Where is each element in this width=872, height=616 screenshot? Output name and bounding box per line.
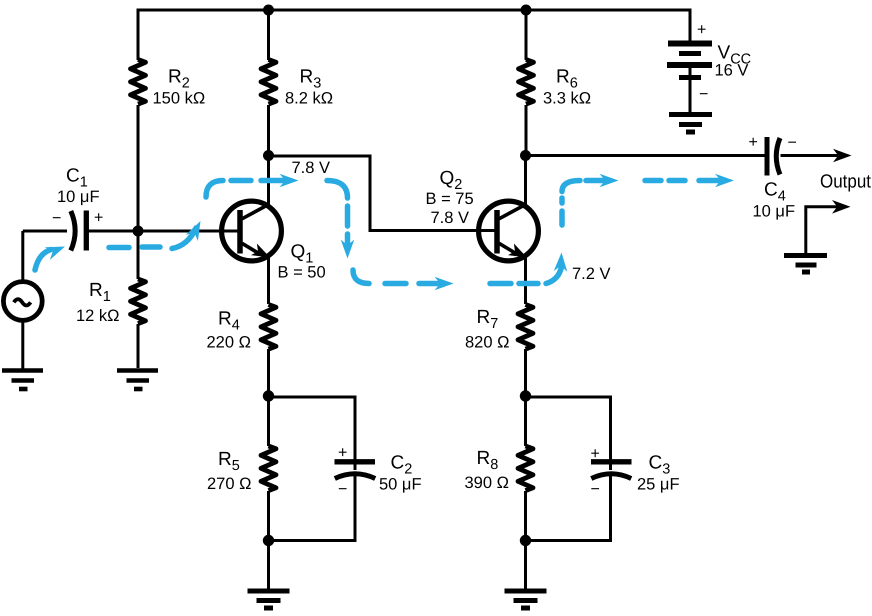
wire node to ground [267, 540, 270, 591]
svg-text:10 μF: 10 μF [57, 188, 100, 206]
wire battery top [689, 10, 691, 44]
svg-text:R5: R5 [218, 449, 240, 474]
wire top supply rail [137, 9, 691, 12]
resistor R6 [519, 60, 534, 105]
wire blue dashes after C1 [109, 245, 129, 251]
wire R2 top [137, 9, 140, 61]
wire R1 bottom [137, 324, 140, 368]
wire Q1 emitter down [267, 256, 270, 304]
svg-text:R2: R2 [168, 67, 190, 92]
wire Q2 collector [524, 155, 527, 206]
svg-text:+: + [749, 134, 758, 151]
node Q2 collector [520, 150, 531, 161]
ground R8 [505, 591, 547, 608]
wire blue dash above Q1 [231, 178, 251, 184]
wire source bottom [21, 320, 24, 369]
svg-text:R3: R3 [300, 67, 322, 92]
wire base node to Q1 base [138, 230, 238, 233]
resistor R8 [518, 446, 533, 491]
svg-text:C2: C2 [391, 453, 413, 478]
wire node to R5 [267, 395, 270, 446]
svg-text:C4: C4 [764, 180, 786, 205]
ground R1 [117, 371, 158, 390]
resistor R3 [261, 60, 276, 105]
capacitor C3 [591, 462, 632, 479]
wire collector node to C4 [526, 154, 765, 157]
wire C1 to base node [89, 230, 139, 233]
svg-text:R6: R6 [556, 67, 578, 92]
svg-text:−: − [52, 210, 61, 227]
wire R2 bottom to base node [137, 105, 140, 232]
node Q1 collector [263, 150, 274, 161]
svg-text:8.2 kΩ: 8.2 kΩ [285, 90, 333, 108]
resistor R7 [518, 305, 533, 350]
svg-text:−: − [591, 481, 600, 498]
svg-text:R7: R7 [477, 307, 499, 332]
wire R6 top [525, 9, 528, 61]
resistor R4 [261, 305, 276, 350]
svg-text:25 μF: 25 μF [637, 476, 680, 494]
wire Q1 collector [267, 155, 270, 206]
wire C2 top branch [269, 397, 356, 470]
wire blue curve up to 7.2V [546, 267, 562, 284]
arrow blue down right of Q1 [341, 240, 355, 259]
capacitor C4 [767, 137, 780, 176]
arrow blue toward Q2 [435, 277, 454, 291]
battery VCC [667, 44, 712, 78]
wire C2 bottom branch [269, 474, 356, 541]
wire blue corner to bottom run [353, 270, 369, 284]
transistor Q2 [479, 201, 539, 261]
wire C3 bottom branch [526, 474, 611, 541]
wire node to ground [524, 540, 527, 591]
wire blue output dashes [586, 178, 604, 184]
node R4-R5 [263, 390, 274, 401]
arrow blue at source [45, 247, 65, 260]
arrow blue above Q1 [280, 174, 299, 188]
svg-text:+: + [697, 22, 706, 39]
svg-text:R4: R4 [218, 309, 240, 334]
wire node to Q2 base [269, 156, 495, 231]
svg-text:10 μF: 10 μF [753, 203, 796, 221]
wire output tap [806, 207, 838, 254]
svg-text:7.8 V: 7.8 V [431, 209, 470, 227]
wire blue corner up-left of Q1 [206, 181, 223, 198]
wire R3 top [267, 9, 270, 61]
transistor Q1 [222, 201, 282, 261]
output arrow tap [832, 200, 851, 214]
wire blue corner to output run [562, 181, 580, 192]
wire blue arc up to base [172, 228, 196, 249]
svg-text:−: − [338, 481, 347, 498]
svg-text:B = 75: B = 75 [426, 190, 474, 208]
wire R5 bottom to node [267, 491, 270, 541]
wire R7 bottom to node [524, 349, 527, 397]
wire source to C1 [23, 230, 67, 233]
svg-text:3.3 kΩ: 3.3 kΩ [543, 90, 591, 108]
AC source V1 [3, 282, 42, 321]
svg-text:C3: C3 [649, 453, 671, 478]
svg-text:C1: C1 [66, 166, 88, 191]
arrow blue to C4 [715, 174, 734, 188]
ground battery [669, 115, 712, 133]
svg-text:820 Ω: 820 Ω [465, 334, 509, 352]
output arrow main [833, 149, 852, 163]
wire Q2 emitter down [524, 256, 527, 304]
wire blue vertical dash [345, 206, 351, 226]
svg-text:220 Ω: 220 Ω [207, 334, 251, 352]
ground output [784, 256, 827, 273]
wire blue start arc at source [35, 250, 51, 271]
svg-text:270 Ω: 270 Ω [207, 475, 251, 493]
node Q1 base [133, 226, 144, 237]
svg-text:−: − [788, 135, 797, 152]
svg-text:16 V: 16 V [715, 62, 749, 80]
ground R5 [248, 591, 290, 608]
svg-text:−: − [699, 86, 708, 103]
svg-text:150 kΩ: 150 kΩ [153, 90, 206, 108]
wire source top [21, 231, 24, 282]
signal path blue [35, 181, 718, 284]
node R7-R8 [520, 390, 531, 401]
svg-text:+: + [338, 445, 347, 462]
svg-text:7.2 V: 7.2 V [572, 265, 611, 283]
wire battery bottom [689, 65, 692, 115]
node R5-ground [263, 535, 274, 546]
wire C3 top branch [526, 397, 611, 470]
svg-text:50 μF: 50 μF [379, 476, 422, 494]
svg-text:+: + [94, 210, 103, 227]
node R8-ground [520, 535, 531, 546]
arrow blue to Q1 base [186, 221, 201, 241]
wire R4 bottom to node [267, 349, 270, 397]
arrow blue up at 7.2V [554, 253, 568, 272]
svg-text:390 Ω: 390 Ω [465, 474, 509, 492]
capacitor C2 [335, 462, 376, 479]
wire C4 to output arrow [781, 154, 839, 157]
wire blue bottom dashes [385, 281, 406, 287]
ground source [2, 371, 43, 390]
svg-text:12 kΩ: 12 kΩ [76, 307, 120, 325]
capacitor C1 [71, 211, 87, 251]
wire R8 bottom to node [524, 491, 527, 541]
wire R3 bottom to collector node [267, 105, 270, 156]
wire blue vertical dashes right of Q2 [559, 211, 565, 225]
resistor R5 [261, 446, 276, 491]
node top rail right [521, 5, 532, 16]
wire node to R8 [524, 395, 527, 446]
resistor R1 [131, 279, 146, 324]
wire R6 bottom to collector node [525, 105, 528, 156]
svg-text:Output: Output [820, 172, 872, 193]
svg-text:7.8 V: 7.8 V [292, 159, 331, 177]
resistor R2 [131, 60, 146, 105]
svg-text:+: + [591, 446, 600, 463]
node top rail left [263, 5, 274, 16]
svg-text:R1: R1 [89, 280, 111, 305]
svg-text:R8: R8 [477, 448, 499, 473]
svg-text:B = 50: B = 50 [278, 264, 326, 282]
wire blue corner right of Q1 [327, 181, 348, 199]
arrow blue after Q2 [600, 174, 619, 188]
wire base node to R1 [137, 230, 140, 279]
